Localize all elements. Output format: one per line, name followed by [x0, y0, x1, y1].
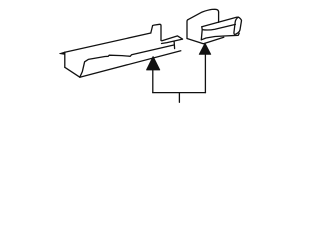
rail end face bottom edge: [162, 39, 183, 43]
bracket bar left end edge: [200, 27, 203, 40]
arrow 1 stem / leader left vertical: [152, 70, 154, 93]
bracket plate top edge: [188, 9, 219, 19]
bracket bar back top edge: [202, 17, 239, 27]
rail inner contour: [80, 45, 174, 77]
rail bottom front edge: [80, 51, 181, 77]
arrow 2 head: [199, 43, 210, 54]
bracket plate left edge: [186, 20, 189, 39]
rail top step up: [151, 26, 153, 33]
rail end small tab: [173, 41, 176, 48]
bracket plate bottom edge: [187, 37, 224, 43]
bracket plate right edge: [218, 12, 220, 22]
bracket bar right end face: [234, 17, 242, 34]
leader center stub: [178, 93, 180, 103]
rail top back edge: [65, 33, 151, 52]
bracket bar front top edge: [202, 24, 235, 30]
rail left end vertical edge: [64, 52, 66, 67]
arrow 2 stem / leader right vertical: [204, 54, 206, 92]
bracket bar bottom front edge: [201, 33, 239, 40]
rail top run at step: [153, 24, 161, 40]
rail end face top edge: [161, 36, 183, 41]
leader horizontal: [153, 92, 206, 94]
rail left flange tip: [60, 52, 65, 54]
rail left lower diagonal: [65, 67, 80, 77]
arrow 1 head: [147, 57, 160, 70]
